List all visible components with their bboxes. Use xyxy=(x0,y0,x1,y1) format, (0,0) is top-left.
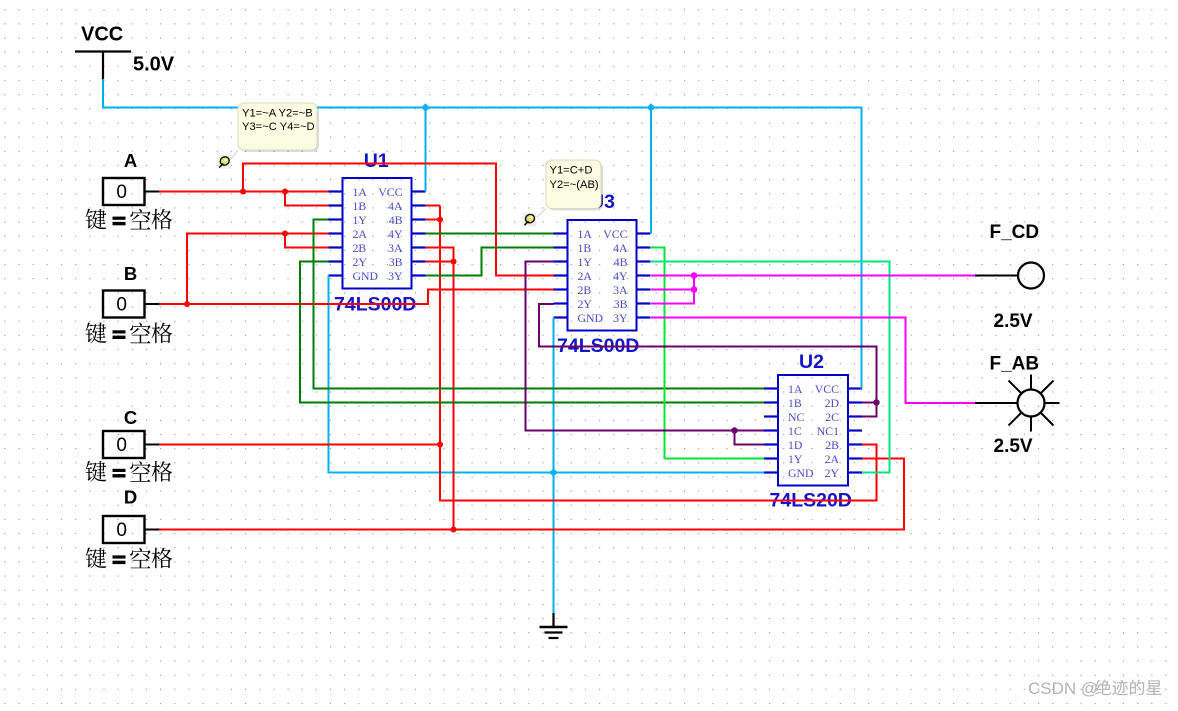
svg-text:1Y: 1Y xyxy=(788,452,803,466)
svg-text:1Y: 1Y xyxy=(353,213,368,227)
svg-text:1Y: 1Y xyxy=(578,255,593,269)
svg-text:4Y: 4Y xyxy=(613,269,628,283)
svg-text:4A: 4A xyxy=(613,241,628,255)
svg-text:NC: NC xyxy=(788,410,805,424)
svg-text:A: A xyxy=(124,150,137,171)
svg-text:GND: GND xyxy=(353,269,379,283)
svg-text:1B: 1B xyxy=(353,199,367,213)
svg-text:2B: 2B xyxy=(825,438,839,452)
svg-text:2D: 2D xyxy=(825,396,840,410)
svg-text:C: C xyxy=(124,407,137,428)
svg-text:3A: 3A xyxy=(388,241,403,255)
svg-text:2A: 2A xyxy=(353,227,368,241)
svg-text:Y3=~C Y4=~D: Y3=~C Y4=~D xyxy=(242,121,315,133)
svg-text:0: 0 xyxy=(116,435,127,456)
svg-text:2Y: 2Y xyxy=(353,255,368,269)
svg-text:1A: 1A xyxy=(788,382,803,396)
svg-text:GND: GND xyxy=(578,311,604,325)
svg-text:1B: 1B xyxy=(788,396,802,410)
svg-text:NC1: NC1 xyxy=(817,424,839,438)
svg-text:1B: 1B xyxy=(578,241,592,255)
svg-text:3B: 3B xyxy=(614,297,628,311)
svg-text:U1: U1 xyxy=(364,150,389,172)
svg-text:F_AB: F_AB xyxy=(990,354,1040,375)
svg-text:4Y: 4Y xyxy=(388,227,403,241)
svg-text:0: 0 xyxy=(116,295,127,316)
svg-text:3B: 3B xyxy=(389,255,403,269)
svg-text:VCC: VCC xyxy=(815,382,839,396)
svg-text:2C: 2C xyxy=(825,410,839,424)
svg-text:4B: 4B xyxy=(389,213,403,227)
svg-text:0: 0 xyxy=(116,520,127,541)
svg-text:3Y: 3Y xyxy=(388,269,403,283)
svg-text:2B: 2B xyxy=(578,283,592,297)
svg-text:1D: 1D xyxy=(788,438,803,452)
svg-text:2B: 2B xyxy=(353,241,367,255)
svg-text:5.0V: 5.0V xyxy=(133,54,175,76)
svg-text:CSDN @: CSDN @ xyxy=(1028,679,1098,698)
svg-text:D: D xyxy=(124,487,137,508)
svg-text:VCC: VCC xyxy=(378,185,402,199)
svg-text:1A: 1A xyxy=(578,227,593,241)
svg-text:Y1=~A Y2=~B: Y1=~A Y2=~B xyxy=(242,108,313,120)
svg-text:2A: 2A xyxy=(578,269,593,283)
svg-text:GND: GND xyxy=(788,466,814,480)
svg-text:0: 0 xyxy=(116,182,127,203)
svg-text:4B: 4B xyxy=(614,255,628,269)
svg-text:1A: 1A xyxy=(353,185,368,199)
svg-text:3Y: 3Y xyxy=(613,311,628,325)
svg-text:2Y: 2Y xyxy=(578,297,593,311)
svg-text:2.5V: 2.5V xyxy=(994,436,1033,457)
svg-text:2A: 2A xyxy=(825,452,840,466)
svg-text:F_CD: F_CD xyxy=(990,222,1040,243)
svg-text:VCC: VCC xyxy=(603,227,627,241)
svg-text:2.5V: 2.5V xyxy=(994,311,1033,332)
svg-text:U2: U2 xyxy=(799,351,824,373)
svg-text:3A: 3A xyxy=(613,283,628,297)
svg-text:B: B xyxy=(124,263,137,284)
svg-text:Y1=C+D: Y1=C+D xyxy=(550,165,593,177)
svg-text:Y2=~(AB): Y2=~(AB) xyxy=(550,179,599,191)
svg-text:VCC: VCC xyxy=(81,24,123,46)
svg-text:4A: 4A xyxy=(388,199,403,213)
svg-text:1C: 1C xyxy=(788,424,802,438)
svg-text:2Y: 2Y xyxy=(825,466,840,480)
